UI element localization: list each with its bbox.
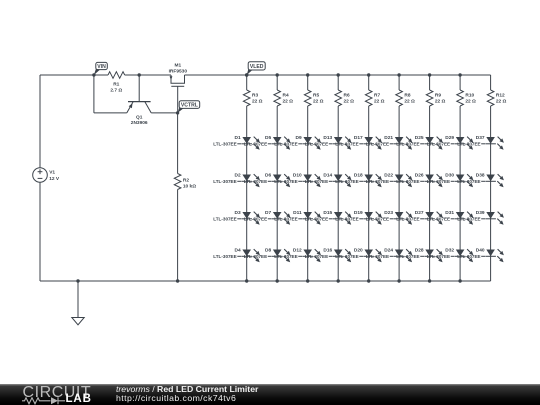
resistor R1	[108, 72, 125, 94]
svg-text:LTL-307EE: LTL-307EE	[396, 217, 419, 222]
LED D10	[274, 172, 321, 187]
svg-text:22 Ω: 22 Ω	[465, 98, 476, 104]
LED D28	[396, 247, 443, 262]
svg-text:LTL-307EE: LTL-307EE	[335, 217, 358, 222]
svg-text:D24: D24	[384, 247, 393, 253]
svg-text:D5: D5	[265, 135, 271, 141]
svg-text:D18: D18	[354, 172, 363, 178]
svg-text:VLED: VLED	[250, 64, 264, 70]
CircuitLab logo LAB	[66, 394, 92, 405]
svg-text:D19: D19	[354, 210, 363, 216]
junction top rail col 3	[306, 73, 309, 76]
svg-text:D29: D29	[445, 135, 454, 141]
svg-text:LTL-307EE: LTL-307EE	[274, 142, 297, 147]
junction bottom rail col 4	[337, 279, 340, 282]
svg-text:LTL-307EE: LTL-307EE	[274, 217, 297, 222]
svg-text:LTL-307EE: LTL-307EE	[305, 254, 328, 259]
junction R1/M1/Q1 base node	[138, 73, 141, 76]
node VIN	[94, 62, 107, 75]
svg-text:22 Ω: 22 Ω	[344, 98, 355, 104]
svg-text:LTL-307EE: LTL-307EE	[244, 254, 267, 259]
wire VCTRL to R2	[177, 113, 179, 174]
wire column R7 top	[368, 75, 370, 90]
junction top rail col 1	[245, 73, 248, 76]
svg-text:LTL-307EE: LTL-307EE	[335, 254, 358, 259]
svg-text:2.7 Ω: 2.7 Ω	[110, 87, 122, 93]
wire column R3 top	[246, 75, 248, 90]
transistor M1	[169, 63, 188, 87]
junction ground stub	[76, 279, 79, 282]
svg-text:D25: D25	[415, 135, 424, 141]
svg-text:R3: R3	[252, 92, 258, 98]
junction bottom rail col 6	[397, 279, 400, 282]
svg-text:R9: R9	[435, 92, 441, 98]
CircuitLab logo text	[23, 385, 92, 401]
junction top rail col 8	[458, 73, 461, 76]
svg-text:LTL-307EE: LTL-307EE	[244, 142, 267, 147]
wire M1 gate	[177, 86, 179, 113]
wire R2 to ground rail	[177, 190, 179, 282]
resistor R12	[487, 90, 506, 106]
LED D1	[213, 135, 260, 150]
footer title	[116, 385, 258, 403]
svg-text:IRF9530: IRF9530	[169, 69, 188, 75]
svg-text:VCTRL: VCTRL	[181, 102, 198, 108]
svg-text:LTL-307EE: LTL-307EE	[335, 142, 358, 147]
svg-text:LTL-307EE: LTL-307EE	[366, 142, 389, 147]
junction VLED	[245, 73, 248, 76]
wire column R9 body	[429, 106, 431, 281]
resistor R2	[174, 174, 196, 190]
svg-text:D28: D28	[415, 247, 424, 253]
LED D39	[457, 210, 504, 225]
junction bottom rail col 7	[428, 279, 431, 282]
svg-text:LTL-307EE: LTL-307EE	[305, 142, 328, 147]
wire Q1 collector to VCTRL	[151, 112, 177, 114]
junction R2 bottom	[176, 279, 179, 282]
svg-text:D17: D17	[354, 135, 363, 141]
wire bottom rail	[40, 280, 491, 282]
wire Q1 base	[138, 75, 140, 101]
LED D12	[274, 247, 321, 262]
svg-text:10 kΩ: 10 kΩ	[183, 183, 196, 189]
svg-text:22 Ω: 22 Ω	[252, 98, 263, 104]
svg-text:D20: D20	[354, 247, 363, 253]
svg-text:LTL-307EE: LTL-307EE	[396, 142, 419, 147]
LED D7	[244, 210, 291, 225]
transistor Q1	[127, 102, 151, 127]
svg-text:D40: D40	[476, 247, 485, 253]
svg-text:LTL-307EE: LTL-307EE	[396, 254, 419, 259]
CircuitLab logo symbol	[22, 397, 66, 405]
wire top rail right	[185, 74, 491, 76]
svg-text:D12: D12	[293, 247, 302, 253]
junction VIN	[92, 73, 95, 76]
svg-text:D27: D27	[415, 210, 424, 216]
LED D20	[335, 247, 382, 262]
resistor R9	[426, 90, 445, 106]
svg-text:LTL-307EE: LTL-307EE	[366, 179, 389, 184]
svg-text:2N3906: 2N3906	[131, 120, 148, 126]
svg-text:LTL-307EE: LTL-307EE	[274, 254, 297, 259]
wire left rail	[39, 75, 41, 281]
svg-text:22 Ω: 22 Ω	[283, 98, 294, 104]
junction bottom rail col 3	[306, 279, 309, 282]
wire column R10 top	[459, 75, 461, 90]
wire column R6 body	[337, 106, 339, 281]
svg-text:D21: D21	[384, 135, 393, 141]
svg-text:R1: R1	[113, 81, 119, 87]
wire column R5 body	[307, 106, 309, 281]
LED D32	[427, 247, 474, 262]
svg-text:22 Ω: 22 Ω	[496, 98, 507, 104]
wire column R8 top	[398, 75, 400, 90]
svg-text:LTL-307EE: LTL-307EE	[427, 217, 450, 222]
LED D37	[457, 135, 504, 150]
node VCTRL	[178, 101, 200, 113]
LED D38	[457, 172, 504, 187]
svg-text:D31: D31	[445, 210, 454, 216]
footer bar	[0, 384, 540, 405]
svg-text:D15: D15	[323, 210, 332, 216]
LED D25	[396, 135, 443, 150]
svg-text:R12: R12	[496, 92, 505, 98]
LED D23	[366, 210, 413, 225]
LED D11	[274, 210, 321, 225]
resistor R8	[396, 90, 415, 106]
svg-text:LTL-307EE: LTL-307EE	[396, 179, 419, 184]
svg-text:LTL-307EE: LTL-307EE	[457, 254, 480, 259]
LED D5	[244, 135, 291, 150]
LED D9	[274, 135, 321, 150]
svg-text:R7: R7	[374, 92, 380, 98]
svg-text:D2: D2	[235, 172, 241, 178]
wire column R3 body	[246, 106, 248, 281]
resistor R3	[243, 90, 262, 106]
svg-text:D14: D14	[323, 172, 332, 178]
svg-text:22 Ω: 22 Ω	[404, 98, 415, 104]
svg-text:LTL-307EE: LTL-307EE	[244, 217, 267, 222]
svg-text:R4: R4	[283, 92, 289, 98]
LED D22	[366, 172, 413, 187]
LED D40	[457, 247, 504, 262]
junction top rail col 7	[428, 73, 431, 76]
junction bottom rail col 2	[276, 279, 279, 282]
svg-text:D1: D1	[235, 135, 241, 141]
resistor R7	[365, 90, 384, 106]
LED D6	[244, 172, 291, 187]
svg-text:22 Ω: 22 Ω	[374, 98, 385, 104]
wire top rail left	[40, 74, 108, 76]
svg-text:VIN: VIN	[97, 64, 106, 70]
wire column R4 top	[276, 75, 278, 90]
svg-text:D38: D38	[476, 172, 485, 178]
svg-text:D32: D32	[445, 247, 454, 253]
svg-text:D4: D4	[235, 247, 241, 253]
svg-text:12 V: 12 V	[49, 176, 60, 182]
LED D16	[305, 247, 352, 262]
svg-text:R8: R8	[404, 92, 410, 98]
svg-text:LTL-307EE: LTL-307EE	[305, 217, 328, 222]
wire ground stub	[77, 281, 79, 318]
LED D14	[305, 172, 352, 187]
junction bottom rail col 8	[458, 279, 461, 282]
svg-text:D37: D37	[476, 135, 485, 141]
svg-text:22 Ω: 22 Ω	[313, 98, 324, 104]
svg-text:R6: R6	[344, 92, 350, 98]
junction top rail col 4	[337, 73, 340, 76]
wire column R8 body	[398, 106, 400, 281]
LED D24	[366, 247, 413, 262]
LED D29	[427, 135, 474, 150]
wire column R9 top	[429, 75, 431, 90]
node VLED	[247, 62, 266, 75]
svg-text:22 Ω: 22 Ω	[435, 98, 446, 104]
svg-text:LTL-307EE: LTL-307EE	[457, 179, 480, 184]
junction top rail col 6	[397, 73, 400, 76]
svg-text:D39: D39	[476, 210, 485, 216]
svg-text:R2: R2	[183, 177, 189, 183]
LED D19	[335, 210, 382, 225]
wire column R12 body	[490, 106, 492, 281]
resistor R10	[457, 90, 476, 106]
svg-text:Q1: Q1	[136, 115, 143, 121]
svg-text:LTL-307EE: LTL-307EE	[457, 217, 480, 222]
LED D26	[396, 172, 443, 187]
svg-text:D16: D16	[323, 247, 332, 253]
voltage source V1	[33, 168, 60, 183]
svg-text:LTL-307EE: LTL-307EE	[213, 217, 236, 222]
svg-text:LTL-307EE: LTL-307EE	[213, 179, 236, 184]
wire column R6 top	[337, 75, 339, 90]
wire column R10 body	[459, 106, 461, 281]
svg-text:D23: D23	[384, 210, 393, 216]
LED D13	[305, 135, 352, 150]
wire column R4 body	[276, 106, 278, 281]
LED D3	[213, 210, 260, 225]
svg-text:LTL-307EE: LTL-307EE	[213, 254, 236, 259]
svg-text:D7: D7	[265, 210, 271, 216]
LED D30	[427, 172, 474, 187]
svg-text:D30: D30	[445, 172, 454, 178]
junction VCTRL	[176, 111, 179, 114]
LED D15	[305, 210, 352, 225]
wire column R5 top	[307, 75, 309, 90]
svg-text:LTL-307EE: LTL-307EE	[427, 142, 450, 147]
LED D18	[335, 172, 382, 187]
junction bottom rail col 1	[245, 279, 248, 282]
junction top rail col 2	[276, 73, 279, 76]
svg-text:LTL-307EE: LTL-307EE	[244, 179, 267, 184]
LED D2	[213, 172, 260, 187]
svg-text:D13: D13	[323, 135, 332, 141]
svg-text:D8: D8	[265, 247, 271, 253]
LED D21	[366, 135, 413, 150]
svg-text:M1: M1	[174, 63, 181, 69]
svg-text:LTL-307EE: LTL-307EE	[213, 142, 236, 147]
svg-text:LTL-307EE: LTL-307EE	[457, 142, 480, 147]
svg-text:D6: D6	[265, 172, 271, 178]
wire column R7 body	[368, 106, 370, 281]
svg-text:D22: D22	[384, 172, 393, 178]
LED D17	[335, 135, 382, 150]
svg-text:LTL-307EE: LTL-307EE	[274, 179, 297, 184]
junction bottom rail col 5	[367, 279, 370, 282]
svg-text:LTL-307EE: LTL-307EE	[366, 254, 389, 259]
LED D4	[213, 247, 260, 262]
svg-text:D3: D3	[235, 210, 241, 216]
svg-text:D10: D10	[293, 172, 302, 178]
svg-text:D9: D9	[296, 135, 302, 141]
LED D27	[396, 210, 443, 225]
svg-text:LTL-307EE: LTL-307EE	[366, 217, 389, 222]
resistor R6	[335, 90, 354, 106]
resistor R4	[274, 90, 293, 106]
svg-text:LTL-307EE: LTL-307EE	[335, 179, 358, 184]
svg-text:LTL-307EE: LTL-307EE	[427, 179, 450, 184]
wire top rail mid	[125, 74, 171, 76]
wire column R12 top	[490, 75, 492, 90]
wire VIN to Q1 emitter	[94, 75, 127, 113]
resistor R5	[304, 90, 323, 106]
LED D31	[427, 210, 474, 225]
ground	[72, 318, 84, 325]
svg-text:LTL-307EE: LTL-307EE	[427, 254, 450, 259]
svg-text:R10: R10	[465, 92, 474, 98]
svg-text:R5: R5	[313, 92, 319, 98]
junction top rail col 5	[367, 73, 370, 76]
svg-text:V1: V1	[49, 170, 55, 176]
LED D8	[244, 247, 291, 262]
svg-text:D26: D26	[415, 172, 424, 178]
svg-text:D11: D11	[293, 210, 302, 216]
svg-text:LTL-307EE: LTL-307EE	[305, 179, 328, 184]
